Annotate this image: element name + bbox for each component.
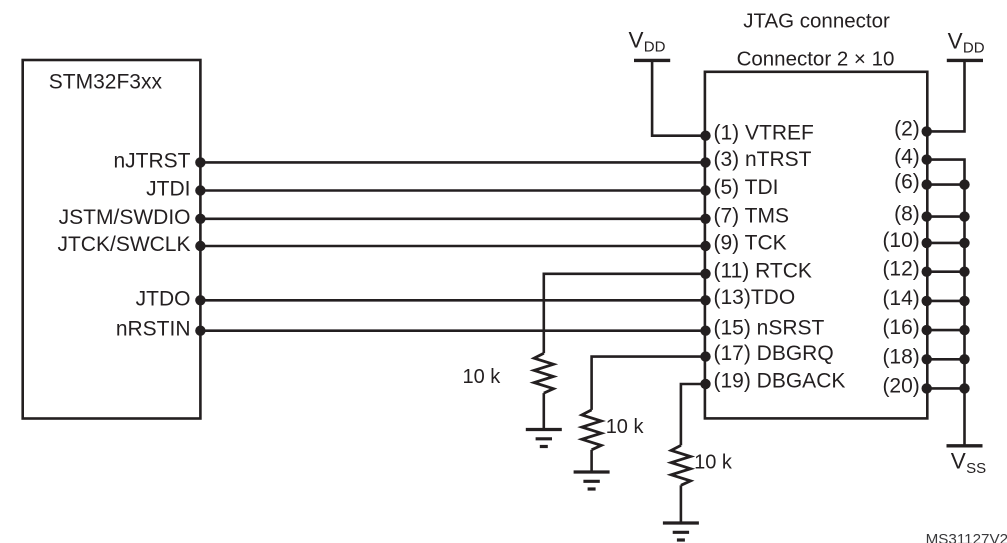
svg-text:nRSTIN: nRSTIN: [116, 318, 191, 341]
svg-text:(20): (20): [882, 374, 919, 397]
svg-text:(7) TMS: (7) TMS: [714, 204, 789, 227]
svg-text:MS31127V2: MS31127V2: [926, 531, 1007, 543]
U1 pin node JTCK/SWCLK: [195, 241, 205, 251]
wire pin 19 DBGACK to R3: [681, 384, 705, 445]
svg-text:(2): (2): [894, 117, 920, 140]
J1 pin 14 node: [922, 296, 932, 306]
resistor R2 10 k: [582, 410, 601, 450]
svg-text:(11) RTCK: (11) RTCK: [714, 259, 812, 282]
J1 pin 2 node: [922, 126, 932, 136]
svg-text:(3) nTRST: (3) nTRST: [714, 148, 812, 171]
wire VDD right to pin 2: [927, 60, 964, 131]
wire JTDO to pin 13: [200, 299, 705, 302]
wire pin 11 RTCK to R1: [544, 274, 705, 353]
power VDD right label: [948, 29, 985, 57]
wire pin 8 to bus: [927, 215, 964, 218]
svg-text:(10): (10): [882, 229, 919, 252]
node bus junction pin 14: [959, 296, 969, 306]
J1 pin 10 node: [922, 238, 932, 248]
J1 pin 15 node: [700, 326, 710, 336]
J1 pin 8 node: [922, 211, 932, 221]
svg-text:nJTRST: nJTRST: [113, 149, 190, 172]
svg-text:(4): (4): [894, 146, 920, 169]
svg-text:(13)TDO: (13)TDO: [714, 286, 796, 309]
ground R1: [526, 430, 562, 447]
node bus junction pin 6: [959, 179, 969, 189]
svg-text:JTDO: JTDO: [136, 287, 191, 310]
wire pin 16 to bus: [927, 329, 964, 332]
wire R3 to ground: [680, 485, 683, 523]
J1 pin 18 node: [922, 354, 932, 364]
wire pin 12 to bus: [927, 270, 964, 273]
wire pin 17 DBGRQ to R2: [592, 357, 705, 410]
svg-text:(15) nSRST: (15) nSRST: [714, 316, 825, 339]
J1 pin 5 node: [700, 185, 710, 195]
node bus junction pin 18: [959, 354, 969, 364]
svg-text:V: V: [951, 449, 966, 474]
svg-text:SS: SS: [966, 460, 986, 477]
J1 pin 11 node: [700, 269, 710, 279]
J1 pin 4 node: [922, 154, 932, 164]
J1 pin 19 node: [700, 379, 710, 389]
U1 pin node nJTRST: [195, 157, 205, 167]
svg-text:(12): (12): [882, 258, 919, 281]
wire JTDI to pin 5: [200, 189, 705, 192]
J1 pin 3 node: [700, 157, 710, 167]
wire nJTRST to pin 3: [200, 161, 705, 164]
svg-text:(16): (16): [882, 316, 919, 339]
U1 pin node JSTM/SWDIO: [195, 214, 205, 224]
J1 pin 17 node: [700, 351, 710, 361]
svg-text:(18): (18): [882, 345, 919, 368]
wire nRSTIN to pin 15: [200, 329, 705, 332]
wire pin 20 to bus: [927, 387, 964, 390]
J1 pin 12 node: [922, 267, 932, 277]
node bus junction pin 10: [959, 238, 969, 248]
wire pin 4 to ground bus: [927, 160, 964, 446]
J1 pin 6 node: [922, 179, 932, 189]
wire VDD left to pin 1: [652, 60, 705, 135]
ground R2: [574, 472, 610, 489]
wire pin 10 to bus: [927, 242, 964, 245]
ground R3: [663, 523, 699, 540]
power VDD right bar: [947, 59, 983, 62]
svg-text:DD: DD: [644, 39, 666, 56]
J1 pin 20 node: [922, 383, 932, 393]
svg-text:(6): (6): [894, 171, 920, 194]
svg-text:10 k: 10 k: [606, 416, 645, 438]
wire JTCK/SWCLK to pin 9: [200, 245, 705, 248]
IC U1 STM32F3xx box: [23, 60, 201, 419]
svg-text:(1) VTREF: (1) VTREF: [714, 121, 814, 144]
power VSS bar: [947, 444, 983, 447]
wire R2 to ground: [590, 450, 593, 472]
svg-text:(8): (8): [894, 203, 920, 226]
node bus junction pin 16: [959, 325, 969, 335]
svg-text:(19) DBGACK: (19) DBGACK: [714, 370, 846, 393]
svg-text:10 k: 10 k: [694, 452, 733, 474]
wire pin 18 to bus: [927, 358, 964, 361]
svg-text:Connector 2 × 10: Connector 2 × 10: [737, 48, 895, 71]
svg-text:V: V: [948, 29, 963, 54]
svg-text:STM32F3xx: STM32F3xx: [49, 71, 163, 94]
U1 pin node JTDI: [195, 185, 205, 195]
svg-text:(17) DBGRQ: (17) DBGRQ: [714, 342, 834, 365]
J1 pin 13 node: [700, 295, 710, 305]
svg-text:JSTM/SWDIO: JSTM/SWDIO: [59, 206, 191, 229]
J1 pin 9 node: [700, 241, 710, 251]
svg-text:JTAG connector: JTAG connector: [743, 10, 890, 33]
svg-text:JTCK/SWCLK: JTCK/SWCLK: [57, 233, 190, 256]
wire pin 6 to bus: [927, 183, 964, 186]
wire JSTM/SWDIO to pin 7: [200, 218, 705, 221]
node bus junction pin 12: [959, 267, 969, 277]
power VDD left label: [629, 27, 666, 55]
wire R1 to ground: [542, 393, 545, 429]
svg-text:10 k: 10 k: [463, 366, 502, 388]
svg-text:(9) TCK: (9) TCK: [714, 232, 787, 255]
svg-text:V: V: [629, 27, 644, 52]
connector J1 box: [705, 72, 927, 419]
power VSS label: [951, 449, 986, 477]
svg-text:DD: DD: [963, 40, 985, 57]
wire pin 14 to bus: [927, 300, 964, 303]
node bus junction pin 8: [959, 211, 969, 221]
resistor R3 10 k: [671, 445, 690, 485]
svg-text:(14): (14): [882, 287, 919, 310]
U1 pin node nRSTIN: [195, 326, 205, 336]
J1 pin 7 node: [700, 214, 710, 224]
svg-text:(5) TDI: (5) TDI: [714, 176, 779, 199]
J1 pin 1 node: [700, 131, 710, 141]
U1 pin node JTDO: [195, 295, 205, 305]
power VDD left bar: [634, 59, 670, 62]
J1 pin 16 node: [922, 325, 932, 335]
svg-text:JTDI: JTDI: [146, 178, 190, 201]
resistor R1 10 k: [534, 353, 553, 393]
node bus junction pin 20: [959, 383, 969, 393]
